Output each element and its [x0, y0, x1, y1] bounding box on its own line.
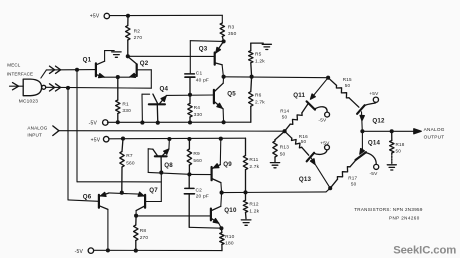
wire Q1 collector to ground — [105, 51, 115, 62]
svg-text:Q1: Q1 — [83, 57, 92, 64]
terminal -5V (bottom rail) — [75, 248, 94, 255]
wire node A rail — [148, 172, 189, 174]
resistor R17 — [330, 159, 357, 188]
wire Q6 Q7 emitter rail — [109, 193, 139, 194]
label Q1 — [83, 57, 92, 64]
transistor Q2 — [128, 57, 137, 78]
node R5/R6 junction — [250, 75, 254, 79]
svg-text:40 pF: 40 pF — [196, 78, 209, 84]
terminal -5V (Q14 base) — [370, 164, 379, 177]
gate U1 MC1023 input chevron — [13, 83, 19, 90]
svg-text:R2: R2 — [134, 28, 141, 34]
node Q8 base junction — [159, 171, 163, 175]
resistor R16 — [285, 131, 309, 155]
label Q11 — [293, 92, 305, 99]
wire Q2 base riser — [137, 70, 151, 88]
wire +5V top rail — [110, 14, 222, 16]
svg-text:R7: R7 — [126, 153, 133, 159]
wire Q6 collector — [107, 209, 109, 250]
svg-text:560: 560 — [126, 160, 135, 166]
svg-text:350: 350 — [228, 31, 237, 37]
svg-text:R4: R4 — [194, 105, 201, 111]
capacitor C1 — [185, 74, 195, 95]
watermark SeekIC.com — [393, 244, 456, 256]
label ANALOG INPUT — [27, 125, 47, 137]
label Q12 — [372, 118, 385, 125]
wire Q10 collector — [220, 193, 223, 207]
chevrons on lower MECL line — [50, 84, 61, 91]
wire Q7 collector to Q10 base — [136, 215, 211, 217]
resistor R13 — [273, 131, 285, 162]
node C1/R4 junction — [188, 93, 192, 97]
label R18 value — [396, 142, 405, 153]
wire Q5 collector — [222, 77, 224, 84]
wire Q3 collector — [222, 65, 223, 77]
label MC1023 — [19, 99, 38, 105]
node input junction — [283, 129, 287, 133]
resistor R4 — [188, 95, 192, 123]
note transistor types — [354, 207, 423, 221]
resistor R7 — [120, 139, 124, 193]
label R8 value — [140, 228, 149, 241]
svg-text:R6: R6 — [255, 93, 262, 99]
node Q9/Q10 collector junction — [220, 191, 224, 195]
svg-text:Q14: Q14 — [368, 140, 381, 147]
svg-text:R9: R9 — [193, 151, 200, 157]
svg-text:Q2: Q2 — [140, 60, 149, 67]
wire analog output — [362, 129, 421, 134]
svg-text:50: 50 — [280, 151, 286, 157]
node R7 top junction — [121, 137, 125, 141]
transistor Q1 — [96, 61, 105, 77]
svg-text:INTERFACE: INTERFACE — [7, 71, 33, 76]
svg-text:Q11: Q11 — [293, 92, 305, 99]
svg-text:1.2k: 1.2k — [249, 208, 259, 214]
wire R3 node to C1 top — [190, 41, 223, 73]
resistor R6 — [249, 77, 253, 123]
wire top rail to R3 — [221, 15, 223, 23]
resistor R11 — [243, 138, 247, 192]
wire Q13 emitter — [311, 158, 331, 189]
svg-text:MECL: MECL — [7, 63, 20, 68]
svg-text:-5V: -5V — [318, 118, 327, 124]
node R3 bottom junction — [222, 39, 226, 43]
wire Q10 emitter — [219, 223, 222, 228]
label R14 value — [280, 108, 289, 119]
wire -5V mid rail — [107, 121, 250, 123]
wire Q12 base curve — [364, 102, 376, 105]
node Q9 emitter junction — [219, 137, 223, 141]
svg-text:INPUT: INPUT — [27, 132, 42, 137]
label MECL INTERFACE — [7, 63, 33, 77]
svg-text:Q6: Q6 — [83, 194, 92, 201]
label C1 value — [196, 70, 209, 83]
ground (R5 top) — [262, 44, 271, 49]
label C2 value — [196, 187, 209, 199]
wire Q14 emitter — [360, 131, 365, 154]
transistor Q9 — [212, 164, 221, 183]
svg-text:ANALOG: ANALOG — [424, 127, 445, 132]
terminal +5V (second rail) — [91, 136, 109, 143]
label R9 value — [193, 151, 202, 164]
transistor Q11 base bar — [307, 101, 315, 109]
svg-text:+5V: +5V — [90, 14, 100, 20]
wire Q12 emitter — [360, 112, 364, 132]
transistor Q12 base bar — [357, 105, 365, 114]
label R3 value — [228, 25, 237, 38]
node Q10 emitter / R10 junction — [219, 226, 223, 230]
svg-text:OUTPUT: OUTPUT — [424, 134, 445, 139]
ground (R12 bottom) — [241, 220, 251, 225]
svg-text:180: 180 — [225, 241, 234, 247]
node Q5 emitter junction — [222, 120, 226, 124]
node Q1 base junction — [75, 68, 79, 72]
svg-text:Q10: Q10 — [224, 207, 237, 214]
label Q8 — [164, 162, 173, 169]
svg-text:R5: R5 — [255, 52, 262, 58]
label R15 value — [343, 77, 352, 88]
resistor R5 — [249, 43, 264, 77]
node Q4 collector junction — [140, 121, 144, 125]
wire gate complementary output diagonal — [41, 70, 47, 78]
node R9 bottom / Q9 base junction — [187, 172, 191, 176]
svg-text:50: 50 — [351, 182, 357, 187]
wire Q7 base riser — [146, 173, 162, 202]
svg-text:Q9: Q9 — [223, 161, 232, 168]
analog input chevron — [53, 126, 59, 136]
wire analog input line — [59, 130, 285, 133]
svg-text:SeekIC.com: SeekIC.com — [393, 244, 456, 256]
resistor R15 — [328, 78, 359, 108]
svg-text:Q5: Q5 — [227, 91, 236, 98]
svg-text:R12: R12 — [249, 202, 259, 208]
svg-text:50: 50 — [301, 139, 307, 144]
wire +5V second rail — [109, 137, 246, 140]
node R18 top junction — [390, 129, 394, 133]
resistor R9 — [187, 139, 191, 174]
node Q7 collector / R8 junction — [134, 214, 138, 218]
wire MECL drop to Q6 base — [68, 88, 98, 201]
svg-text:R8: R8 — [140, 228, 147, 234]
svg-text:50: 50 — [396, 148, 402, 153]
node Q11/Q3 junction — [326, 76, 330, 80]
svg-text:50: 50 — [282, 114, 288, 119]
wire lower MECL line — [46, 86, 152, 89]
node emitter rail junction — [116, 75, 120, 79]
node Q6/Q7 emitter junction — [120, 191, 124, 195]
node R1 bottom junction — [116, 120, 120, 124]
label R10 value — [225, 234, 235, 247]
svg-text:Q7: Q7 — [149, 187, 158, 194]
label Q6 — [83, 194, 92, 201]
wire Q7 collector — [135, 211, 137, 216]
wire Q11 base curve — [315, 107, 328, 113]
label R4 value — [194, 105, 203, 118]
svg-text:2.7k: 2.7k — [249, 164, 259, 170]
resistor R14 — [285, 104, 308, 131]
wire Q14 base curve — [366, 153, 377, 165]
wire Q3 base line — [128, 55, 215, 57]
wire upper MECL line to Q1 base — [46, 69, 95, 71]
svg-text:Q4: Q4 — [160, 86, 169, 93]
label R7 value — [126, 153, 135, 166]
label R16 value — [299, 134, 308, 144]
terminal +5V (Q13 base) — [320, 141, 330, 150]
svg-text:TRANSISTORS: NPN 2N3959: TRANSISTORS: NPN 2N3959 — [354, 207, 423, 212]
node Q8 emitter junction — [167, 137, 171, 141]
terminal -5V (Q11 base) — [318, 112, 329, 123]
transistor Q7 — [136, 192, 145, 210]
wire MECL drop to node A — [77, 70, 161, 182]
label R12 value — [249, 202, 259, 215]
label R17 value — [348, 176, 357, 187]
wire Q5 emitter — [222, 109, 225, 122]
svg-text:-5V: -5V — [89, 120, 98, 126]
svg-text:270: 270 — [140, 235, 149, 241]
label Q10 — [224, 207, 237, 214]
svg-text:50: 50 — [345, 83, 351, 88]
svg-text:+5V: +5V — [369, 91, 379, 97]
node R11 bottom junction — [243, 190, 247, 194]
chevrons on upper MECL line — [50, 66, 61, 73]
wire Q11 emitter — [311, 78, 329, 100]
label R2 value — [134, 28, 143, 41]
node output junction — [360, 129, 364, 133]
svg-text:Q3: Q3 — [199, 45, 208, 52]
svg-text:MC1023: MC1023 — [19, 99, 38, 105]
svg-text:330: 330 — [194, 112, 203, 118]
node Q13/Q14/R17 junction — [328, 186, 332, 190]
resistor R2 — [126, 16, 130, 57]
resistor R18 — [390, 131, 394, 164]
label R5 value — [255, 52, 265, 65]
resistor R10 — [220, 228, 224, 250]
svg-text:C2: C2 — [196, 187, 203, 193]
transistor Q3 — [215, 41, 224, 64]
resistor R12 — [243, 192, 247, 218]
wire mid output line — [222, 188, 331, 192]
wire gate input — [10, 85, 24, 87]
node Q3/Q5 collector junction — [222, 75, 226, 79]
transistor Q10 — [211, 206, 221, 223]
terminal +5V (Q12 base) — [369, 91, 379, 102]
svg-text:Q12: Q12 — [372, 118, 385, 125]
svg-text:+5V: +5V — [320, 141, 330, 147]
svg-text:270: 270 — [134, 35, 143, 41]
label Q14 — [368, 140, 381, 147]
wire Q4 emitter to Q5 base — [166, 94, 214, 96]
svg-text:-5V: -5V — [75, 249, 84, 255]
wire Q1 Q2 emitter rail — [104, 76, 130, 78]
svg-text:PNP 2N4260: PNP 2N4260 — [389, 216, 420, 221]
wire Q8 collector loop — [148, 149, 153, 173]
svg-text:ANALOG: ANALOG — [27, 125, 47, 130]
transistor Q14 base bar — [356, 152, 366, 160]
node R8 bottom junction — [134, 249, 138, 253]
node lower MECL junction — [66, 86, 70, 90]
label Q9 — [223, 161, 232, 168]
svg-text:1.2k: 1.2k — [255, 59, 265, 65]
transistor Q5 — [214, 83, 223, 109]
node R4 bottom junction — [188, 120, 192, 124]
terminal +5V (top rail) — [90, 13, 110, 19]
wire Q9 base — [189, 173, 211, 175]
wire -5V bottom rail — [94, 249, 222, 251]
label R6 value — [255, 93, 265, 106]
capacitor C2 — [184, 174, 194, 227]
wire collector node to Q11 — [224, 76, 329, 79]
node R2 top junction — [126, 14, 130, 18]
wire Q9 collector — [220, 183, 223, 193]
gate U1 output bubble — [42, 85, 46, 89]
resistor R3 — [220, 23, 224, 41]
wire Q13 base curve — [314, 150, 327, 155]
transistor Q4 — [149, 94, 166, 123]
svg-text:330: 330 — [122, 108, 131, 114]
node Q6 collector junction — [106, 248, 110, 252]
wire Q4 collector loop — [142, 94, 150, 122]
wire Q8 emitter — [168, 139, 171, 149]
label Q3 — [199, 45, 208, 52]
label Q2 — [140, 60, 149, 67]
svg-text:R15: R15 — [343, 77, 352, 82]
label Q13 — [299, 176, 312, 183]
node R2 bottom / Q3 base junction — [126, 54, 130, 58]
svg-text:R17: R17 — [348, 176, 357, 181]
label R11 value — [249, 157, 259, 170]
transistor Q8 — [153, 149, 169, 173]
svg-text:C1: C1 — [196, 70, 203, 76]
svg-text:R14: R14 — [280, 108, 289, 113]
ground (R18 bottom) — [387, 165, 396, 170]
ground (Q1 collector) — [112, 52, 121, 57]
svg-text:Q13: Q13 — [299, 176, 312, 183]
label R13 value — [280, 145, 290, 158]
svg-text:-5V: -5V — [370, 171, 379, 177]
label ANALOG OUTPUT — [424, 127, 445, 139]
svg-text:2.7k: 2.7k — [255, 100, 265, 106]
label Q4 — [160, 86, 169, 93]
ground (R13 bottom) — [270, 163, 279, 168]
transistor Q13 base bar — [307, 153, 314, 162]
terminal -5V (mid rail) — [89, 120, 108, 127]
label Q5 — [227, 91, 236, 98]
resistor R8 — [134, 216, 138, 251]
wire Q9 emitter — [219, 139, 222, 165]
transistor Q6 — [99, 192, 109, 209]
node Q4 base junction — [156, 121, 160, 125]
label Q7 — [149, 187, 158, 194]
svg-text:R3: R3 — [228, 25, 235, 31]
svg-text:R18: R18 — [396, 142, 405, 147]
svg-text:+5V: +5V — [91, 138, 101, 144]
svg-text:20 pF: 20 pF — [196, 194, 209, 200]
svg-text:R13: R13 — [280, 145, 290, 151]
svg-text:R1: R1 — [122, 101, 129, 107]
label R1 value — [122, 101, 131, 114]
gate U1 MC1023 body — [23, 79, 41, 96]
svg-text:Q8: Q8 — [164, 162, 173, 169]
svg-text:R10: R10 — [225, 234, 235, 240]
node R9 top junction — [187, 137, 191, 141]
svg-text:560: 560 — [193, 158, 202, 164]
resistor R1 — [116, 77, 120, 122]
svg-text:R11: R11 — [249, 157, 258, 163]
wire C2 bottom to Q10 emitter — [189, 226, 221, 229]
